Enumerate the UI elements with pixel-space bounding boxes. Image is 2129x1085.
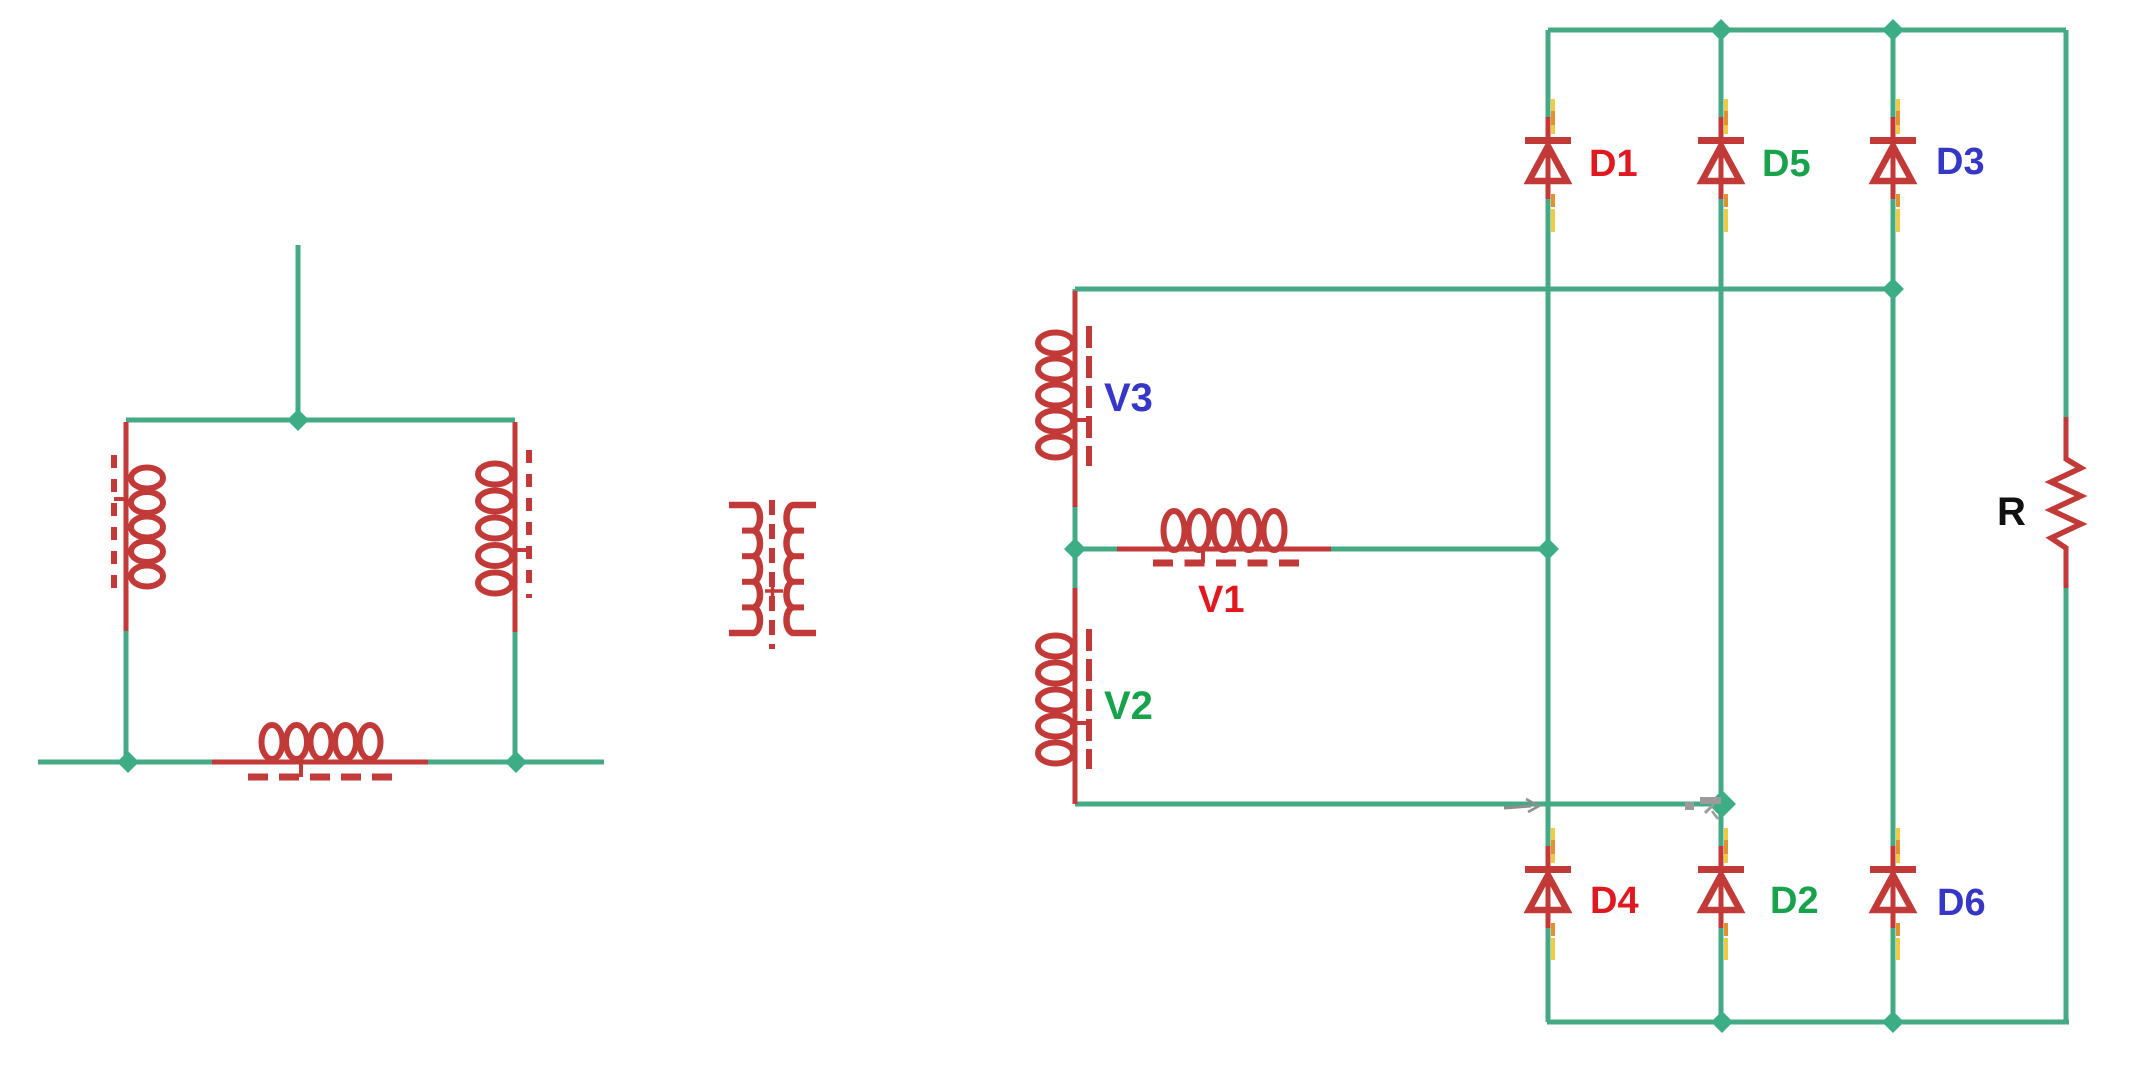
svg-text:V1: V1 xyxy=(1198,579,1244,621)
winding L1 (left leg of primary) xyxy=(114,422,163,631)
node: bottom bus / D6 column xyxy=(1882,1011,1904,1033)
wire: V2 output to bridge xyxy=(1075,802,1722,807)
node: V1 wire / D1 column xyxy=(1537,538,1559,560)
svg-text:D1: D1 xyxy=(1589,143,1638,185)
diode D4 xyxy=(1525,828,1571,960)
wire: right leg lower green xyxy=(513,630,518,762)
node: primary bottom-left junction xyxy=(117,751,139,773)
diode D1 xyxy=(1525,99,1571,232)
winding V3 xyxy=(1038,291,1089,507)
wire: column D1/D4 xyxy=(1546,30,1551,1022)
svg-text:D5: D5 xyxy=(1762,143,1811,185)
winding V2 xyxy=(1038,588,1089,804)
node: V3 wire / D3 column xyxy=(1882,278,1904,300)
wire: load column lower xyxy=(2064,585,2069,1022)
transformer T1 secondary winding xyxy=(787,505,817,633)
node: top bus / D5 column xyxy=(1710,19,1732,41)
node: bottom bus / D2 column xyxy=(1711,1011,1733,1033)
wire: rectifier bottom bus xyxy=(1547,1020,2069,1025)
wire: rectifier top bus xyxy=(1548,28,2066,33)
transformer T1 polarity mark xyxy=(765,581,783,601)
transformer T1 core xyxy=(769,500,775,649)
svg-text:D2: D2 xyxy=(1770,880,1819,922)
wire: column D5/D2 xyxy=(1719,30,1724,1022)
node: secondary centre junction xyxy=(1064,538,1086,560)
resistor R xyxy=(2051,417,2081,588)
svg-text:D6: D6 xyxy=(1937,882,1986,924)
node: top bus / D3 column xyxy=(1882,19,1904,41)
wire: primary top bus xyxy=(126,418,515,423)
svg-text:D4: D4 xyxy=(1590,880,1639,922)
node: primary bottom-right junction xyxy=(505,751,527,773)
transformer T1 primary winding xyxy=(729,505,760,633)
wire: column D3/D6 xyxy=(1891,30,1896,1022)
node: primary top junction xyxy=(287,409,309,431)
winding L2 (right leg of primary) xyxy=(478,422,529,632)
wire: load column upper xyxy=(2064,30,2069,420)
svg-text:V3: V3 xyxy=(1104,376,1153,420)
artifact: grey marks near D2 junction xyxy=(1685,797,1721,819)
winding V1 xyxy=(1117,511,1331,563)
wire: input stub to primary delta xyxy=(296,245,301,420)
node: V2 wire / D2 column xyxy=(1708,790,1736,818)
winding L3 (bottom of primary) xyxy=(212,725,428,777)
diode D6 xyxy=(1870,828,1916,960)
artifact: grey cursor mark on V2 wire xyxy=(1504,799,1539,812)
diode D2 xyxy=(1698,828,1744,960)
svg-text:R: R xyxy=(1997,490,2026,534)
wire: V3 output to bridge xyxy=(1075,287,1893,292)
wire: secondary centre leg xyxy=(1073,289,1078,588)
wire: primary bottom bus xyxy=(38,760,604,765)
wire: left leg lower green xyxy=(124,628,129,762)
svg-text:D3: D3 xyxy=(1936,141,1985,183)
wire: V1 output to bridge xyxy=(1075,547,1548,552)
diode D3 xyxy=(1870,99,1916,232)
svg-text:V2: V2 xyxy=(1104,684,1153,728)
diode D5 xyxy=(1698,99,1744,232)
